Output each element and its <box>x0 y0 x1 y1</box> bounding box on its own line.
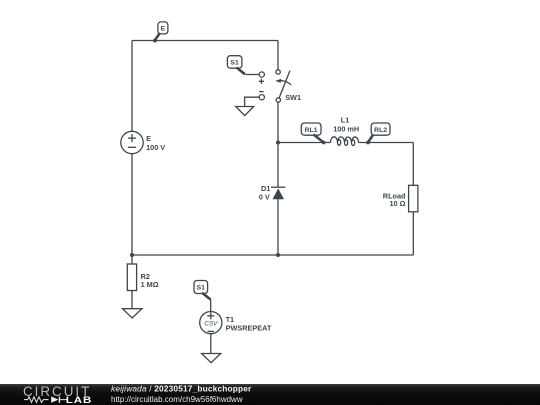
footer logo LAB <box>66 395 93 405</box>
node RL1 label <box>301 123 323 142</box>
footer logo CIRCUIT <box>23 384 91 399</box>
wire left rail upper <box>131 41 133 132</box>
wire diode top <box>277 143 279 188</box>
svg-text:S1: S1 <box>197 285 206 292</box>
wire diode bottom <box>277 199 279 255</box>
resistor R2 <box>127 255 158 309</box>
wire T1 bottom <box>210 334 212 354</box>
svg-text:E: E <box>161 26 166 33</box>
svg-text:L1: L1 <box>341 115 350 124</box>
switch control terminals <box>245 72 265 106</box>
node E label <box>153 22 168 43</box>
inductor L1 <box>331 115 360 145</box>
footer title text <box>111 384 252 394</box>
svg-text:RL1: RL1 <box>305 127 318 134</box>
voltage source E <box>121 131 166 153</box>
svg-text:LAB: LAB <box>66 395 93 405</box>
wire inductor right <box>359 141 414 145</box>
svg-text:100 V: 100 V <box>146 143 165 152</box>
wire switch top <box>277 41 279 70</box>
resistor RLoad <box>383 185 418 212</box>
node S1 label (switch) <box>227 56 245 75</box>
svg-text:keijiwada / 20230517_buckchopp: keijiwada / 20230517_buckchopper <box>111 384 252 394</box>
wire right rail lower <box>412 212 414 255</box>
junction node (left rail / R2) <box>130 253 134 257</box>
svg-text:10 Ω: 10 Ω <box>390 199 406 208</box>
diode D1 <box>259 184 285 201</box>
svg-text:100 mH: 100 mH <box>333 125 359 134</box>
svg-text:CSV: CSV <box>204 320 218 327</box>
footer url text <box>111 395 243 404</box>
svg-text:S1: S1 <box>230 60 239 67</box>
svg-text:1 MΩ: 1 MΩ <box>141 280 159 289</box>
node RL2 label <box>368 123 390 142</box>
wire switch bottom <box>277 102 279 142</box>
ground (switch control) <box>236 107 254 116</box>
junction node (diode / bottom rail) <box>276 253 280 257</box>
svg-text:0 V: 0 V <box>259 192 270 201</box>
svg-text:PWSREPEAT: PWSREPEAT <box>226 324 272 333</box>
junction node (switch/inductor/diode) <box>276 141 280 145</box>
svg-text:E: E <box>146 134 151 143</box>
svg-text:http://circuitlab.com/ch9w56f6: http://circuitlab.com/ch9w56f6hwdww <box>111 395 243 404</box>
wire left rail lower <box>131 154 133 255</box>
switch SW1 <box>275 70 301 102</box>
wire bottom rail <box>132 254 413 256</box>
wire top rail <box>132 40 278 42</box>
svg-text:SW1: SW1 <box>285 93 301 102</box>
wire inductor left <box>278 141 331 145</box>
ground (R2) <box>123 309 142 318</box>
ground (T1) <box>202 354 221 363</box>
svg-text:RL2: RL2 <box>374 127 387 134</box>
node S1 label (T1) <box>194 281 211 312</box>
footer bar <box>0 384 540 405</box>
wire right rail upper <box>412 143 414 186</box>
voltage source T1 (PWSREPEAT) <box>200 312 272 334</box>
footer logo resistor-diode wire <box>24 396 67 402</box>
